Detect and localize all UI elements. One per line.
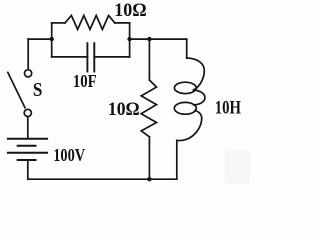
resistor R2 10ohm vertical zigzag bbox=[141, 80, 156, 137]
battery V1 long plate 1 bbox=[8, 138, 47, 140]
switch S blade bbox=[8, 72, 25, 107]
wire: bottom return wire bbox=[28, 178, 177, 180]
svg-text:10Ω: 10Ω bbox=[108, 100, 140, 120]
wire: bottom branch lead right from capacitor bbox=[94, 56, 129, 58]
capacitor C1 10F left plate bbox=[86, 43, 88, 71]
node B junction dot right of parallel block bbox=[127, 37, 131, 41]
svg-text:10Ω: 10Ω bbox=[114, 1, 146, 21]
wire: resistor branch upper lead bbox=[148, 39, 150, 80]
wire: left node horizontal from switch corner to parallel block bbox=[28, 38, 52, 40]
switch S bottom terminal circle bbox=[24, 109, 31, 116]
wire: inductor branch lower lead bbox=[176, 141, 178, 179]
wire: top branch lead right bbox=[115, 22, 130, 24]
battery V1 short plate 1 bbox=[18, 145, 36, 147]
wire: parallel block right edge bbox=[129, 23, 131, 57]
wire: resistor branch lower lead bbox=[148, 137, 150, 179]
svg-text:S: S bbox=[33, 80, 43, 101]
svg-text:100V: 100V bbox=[53, 145, 85, 165]
inductor L1 coil middle turn arc bbox=[194, 90, 205, 105]
wire: parallel block left edge bbox=[51, 23, 53, 57]
wire: bottom branch lead left to capacitor bbox=[52, 56, 88, 58]
node D junction dot on bottom wire bbox=[147, 177, 151, 181]
node A junction dot left of parallel block bbox=[50, 37, 54, 41]
node C junction dot at resistor branch top bbox=[147, 37, 151, 41]
wire: battery to bottom wire lead bbox=[27, 160, 29, 179]
switch S top terminal circle bbox=[25, 70, 32, 77]
wire: switch upper lead vertical bbox=[27, 39, 29, 69]
wire: switch to battery lead bbox=[27, 117, 29, 139]
svg-text:10H: 10H bbox=[215, 99, 242, 119]
wire: inductor branch upper lead bbox=[186, 39, 188, 58]
capacitor C1 10F right plate bbox=[93, 43, 95, 71]
battery V1 short plate 2 bbox=[18, 159, 36, 161]
inductor L1 coil loop 2 bbox=[174, 102, 196, 114]
wire: middle horizontal node wire bbox=[130, 38, 187, 40]
battery V1 long plate 2 bbox=[8, 152, 47, 154]
svg-text:10F: 10F bbox=[73, 71, 97, 91]
resistor R1 10ohm horizontal zigzag bbox=[65, 16, 115, 30]
inductor L1 coil loop 1 bbox=[174, 82, 196, 93]
wire: top branch lead left bbox=[52, 22, 65, 24]
inductor L1 coil bottom turn arc bbox=[177, 111, 202, 141]
inductor L1 10H coil top turn arc bbox=[187, 58, 205, 90]
